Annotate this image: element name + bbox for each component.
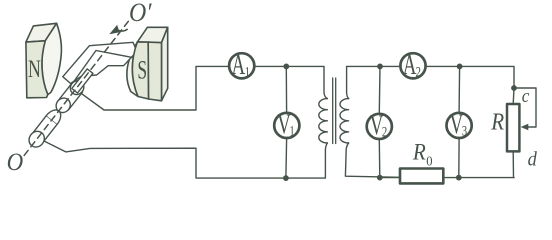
- voltmeter V2: [367, 111, 392, 142]
- svg-text:R: R: [412, 139, 426, 165]
- node V3 top junction: [457, 64, 463, 70]
- transformer secondary winding: [340, 99, 349, 143]
- wire top A2 to right corner: [427, 66, 514, 88]
- magnet S right side face: [162, 27, 168, 101]
- transformer core: [333, 78, 336, 144]
- label R0: [412, 139, 433, 169]
- ammeter A1: [229, 51, 254, 82]
- shaft slip ring 2 top coin: [46, 110, 60, 124]
- wire tap to rheostat top: [512, 88, 515, 104]
- svg-text:O′: O′: [129, 0, 152, 27]
- magnet N concave pole face: [42, 23, 62, 94]
- wire primary bottom lead: [286, 143, 328, 178]
- magnet N front face: [26, 41, 48, 98]
- resistor R0: [400, 169, 443, 184]
- svg-text:c: c: [522, 85, 530, 106]
- node V3 bottom junction: [456, 175, 462, 181]
- wire rheostat slider branch: [514, 88, 536, 127]
- wire bottom through R0: [380, 177, 514, 179]
- svg-text:R: R: [490, 108, 504, 135]
- svg-text:0: 0: [426, 153, 433, 169]
- svg-text:N: N: [28, 55, 41, 83]
- magnet S middle face: [148, 42, 161, 101]
- wire secondary bottom lead: [345, 143, 399, 177]
- wire top A1 to transformer: [256, 66, 328, 98]
- wire brush bottom lead: [45, 141, 286, 178]
- svg-text:A: A: [232, 51, 246, 82]
- wire secondary top lead: [347, 66, 399, 98]
- ammeter A2: [400, 51, 425, 82]
- wire rheostat bottom stub: [512, 151, 515, 177]
- shaft slip ring 1 body: [58, 83, 83, 110]
- node V2 bottom junction: [377, 175, 383, 181]
- svg-text:2: 2: [416, 64, 421, 80]
- magnet N top face: [26, 23, 57, 42]
- rheostat R body: [507, 104, 519, 151]
- axis O-O' dashed line: [24, 19, 130, 156]
- shaft slip ring 2 body: [31, 116, 57, 144]
- svg-text:d: d: [528, 148, 537, 170]
- wire V1 branch: [285, 66, 288, 178]
- magnet S front face: [132, 42, 148, 99]
- rotation arrow: [109, 25, 127, 34]
- svg-text:1: 1: [245, 64, 250, 80]
- svg-text:2: 2: [382, 124, 387, 140]
- rheostat slider arrow: [521, 124, 529, 130]
- voltmeter V3: [447, 110, 472, 141]
- svg-text:O: O: [7, 149, 24, 176]
- node V1 bottom junction: [283, 175, 289, 181]
- svg-text:1: 1: [289, 123, 294, 139]
- wire brush top lead: [81, 66, 228, 110]
- voltmeter V1: [274, 110, 299, 141]
- node rheostat tap junction: [511, 85, 517, 91]
- shaft slip ring 2 end coin: [26, 128, 48, 150]
- node V1 top junction: [283, 64, 289, 70]
- rotating coil: [63, 42, 137, 83]
- svg-text:3: 3: [462, 123, 467, 139]
- shaft slip ring 1 top coin: [68, 78, 87, 97]
- node V2 top junction: [377, 64, 383, 70]
- wire V2 branch: [378, 66, 381, 177]
- shaft tube: [72, 69, 93, 93]
- magnet S top face: [137, 27, 167, 42]
- coil inner opening: [74, 51, 132, 82]
- shaft slip ring 1 end coin: [53, 95, 73, 115]
- magnet S concave pole face: [127, 42, 138, 97]
- svg-text:S: S: [137, 55, 147, 85]
- transformer primary winding: [319, 99, 328, 143]
- wire V3 branch: [458, 66, 461, 177]
